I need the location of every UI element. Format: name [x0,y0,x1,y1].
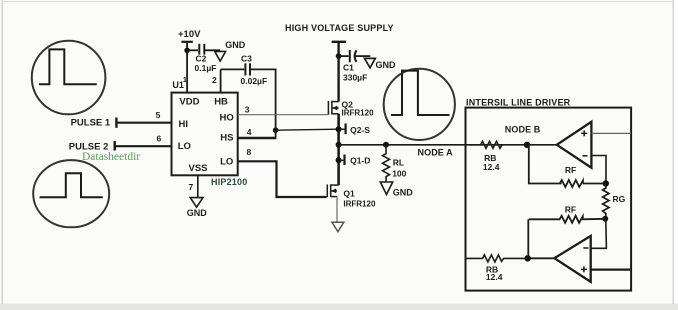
wire RG to bottom minus input [591,219,607,249]
IC U1 HIP2100 body [172,93,238,176]
junction node C1 [336,53,342,59]
supply T-bar terminal [181,41,192,43]
Q1 arrow [331,189,336,194]
svg-text:+10V: +10V [178,29,201,40]
INTERSIL LINE DRIVER box [466,108,632,291]
Q2 arrow [332,106,337,111]
svg-text:INTERSIL LINE DRIVER: INTERSIL LINE DRIVER [466,98,571,108]
wire HS branch to switch node rail [276,129,339,130]
svg-text:3: 3 [245,105,250,115]
wire +10V node to C2 [187,49,198,51]
svg-text:12.4: 12.4 [486,272,503,282]
HV supply T-bar terminal [332,41,347,43]
probe tick pulse2 [113,141,115,151]
junction node NODE A branch [336,142,342,148]
svg-text:330µF: 330µF [343,73,367,83]
frame border top [2,1,673,3]
svg-text:GND: GND [187,208,208,218]
plus sign top op-amp [581,130,587,136]
svg-text:LO: LO [178,141,191,152]
wire VSS pin7 down [197,175,199,197]
wire bottom node up to RF [527,219,529,258]
svg-text:HS: HS [220,132,233,143]
pulse waveform 1 [39,49,97,84]
ground symbol at Q1 [332,222,344,231]
junction node RL [383,142,389,148]
resistor RF top [560,180,583,187]
svg-text:GND: GND [376,60,397,70]
svg-text:Q1: Q1 [343,189,355,199]
HV rail down to Q2 drain [337,42,339,102]
svg-text:GND: GND [393,188,414,198]
wire HS pin4 [238,137,277,140]
svg-text:RF: RF [565,205,576,215]
resistor RF bottom [529,216,605,223]
pulse source circle PULSE 1 [32,41,106,115]
svg-text:100: 100 [392,168,406,178]
ground symbol at VSS [190,198,203,208]
svg-text:NODE B: NODE B [505,124,541,134]
svg-text:HI: HI [179,119,189,130]
resistor RB top [470,141,502,148]
wire LO pin8 to Q1 gate [238,161,327,197]
minus sign top op-amp [583,155,588,157]
svg-text:Datasheetdir: Datasheetdir [82,151,140,163]
svg-text:C3: C3 [241,53,252,63]
svg-text:VSS: VSS [189,163,208,174]
wire HB pin2 up [220,69,222,92]
svg-text:RF: RF [565,165,576,175]
op-amp U2 top (points left) [557,122,592,168]
ground symbol at C1 [365,58,376,67]
junction RF/RG bottom [602,216,608,222]
junction node C3/HS branch [273,127,279,133]
resistor RG [603,184,609,219]
junction RF/RG top [603,180,609,186]
svg-text:NODE A: NODE A [418,148,454,158]
svg-text:HB: HB [214,96,228,107]
svg-text:C2: C2 [196,53,207,63]
capacitor C2 [199,44,204,55]
wire NODE A from rail to opamp [339,144,557,146]
svg-text:5: 5 [156,110,161,120]
transistor Q1 IRFR120 [327,184,338,197]
svg-text:8: 8 [247,147,252,157]
svg-text:Q1-D: Q1-D [350,155,370,165]
svg-text:IRFR120: IRFR120 [343,199,376,208]
svg-text:RL: RL [393,157,404,167]
wire node B down to RF [529,145,562,184]
wire Q1 source down [336,197,338,223]
svg-text:2: 2 [212,75,217,85]
svg-text:C1: C1 [343,63,354,73]
wire C1 to ground [355,55,370,57]
wire pin2 to C3 [221,68,245,70]
svg-text:HIGH VOLTAGE SUPPLY: HIGH VOLTAGE SUPPLY [285,23,394,33]
junction node at +10V [184,48,190,54]
svg-text:PULSE 1: PULSE 1 [71,118,111,129]
pulse waveform 2 [40,173,103,197]
probe tick Q1-D [339,159,344,161]
wire node to C1 [339,55,349,57]
capacitor C1 polarized [350,50,357,62]
svg-text:0.02µF: 0.02µF [241,76,268,86]
junction node Q1-D [336,157,342,163]
wire minus input feedback [591,156,606,184]
ground symbol at RL [380,182,392,195]
resistor RB bottom [466,255,528,262]
wire HO pin3 to Q2 gate [238,114,328,116]
svg-text:4: 4 [247,127,252,137]
svg-text:6: 6 [157,134,162,144]
pulse source circle PULSE 2 [33,160,109,227]
minus sign bottom op-amp [583,247,588,249]
wire plus input to box edge [591,132,631,134]
svg-text:Q2-S: Q2-S [350,125,370,135]
junction NODE B [524,142,530,148]
svg-text:GND: GND [225,40,246,50]
wire bottom apex to node [528,257,555,259]
svg-text:IRFR120: IRFR120 [342,108,375,117]
wire +10V down to VDD pin1 [186,42,188,93]
junction bottom node [525,255,531,261]
svg-text:0.1µF: 0.1µF [195,63,217,73]
frame border left [1,0,3,304]
transistor Q2 IRFR120 [328,101,338,115]
junction node HS/rail [336,126,342,132]
svg-text:HIP2100: HIP2100 [211,177,247,187]
svg-text:12.4: 12.4 [483,162,500,172]
probe tick Q2-S [339,128,346,130]
svg-text:VDD: VDD [179,97,199,108]
wire pulse2 to pin6 LO [115,145,171,147]
op-amp U3 bottom (points left) [554,236,590,282]
wire pulse1 to pin5 HI [117,122,172,124]
resistor RL [383,145,390,182]
wire RF to junction [583,183,606,185]
svg-text:7: 7 [189,182,194,192]
svg-text:RG: RG [613,194,626,204]
pulse waveform 3 [391,71,450,115]
probe tick pulse1 [115,118,117,128]
capacitor C3 [245,63,250,75]
frame border right [672,0,674,304]
svg-text:HO: HO [220,112,234,123]
plus sign bottom op-amp [581,266,587,272]
pulse source circle at node A [384,69,455,140]
wire C2 to ground [204,49,220,51]
wire bottom plus input to box edge [591,269,631,271]
switch node rail Q2 source to Q1 drain [337,114,340,185]
svg-text:LO: LO [220,157,233,168]
wire C3 to HS vertical [250,69,276,138]
ground symbol at C2 [215,51,226,61]
